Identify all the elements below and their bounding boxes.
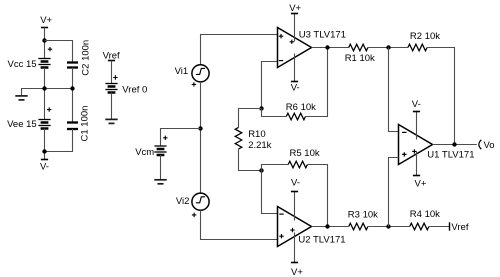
- svg-text:V+: V+: [415, 178, 427, 189]
- junction R3-R4 node: [386, 224, 390, 228]
- junction bottom-left: [42, 149, 46, 153]
- svg-text:C2 100n: C2 100n: [81, 40, 92, 76]
- wire Vcm branch: [161, 129, 201, 147]
- svg-text:V+: V+: [40, 15, 52, 26]
- svg-text:V+: V+: [289, 3, 301, 14]
- wire U2 V- supply: [294, 192, 296, 221]
- svg-text:Vi1: Vi1: [175, 66, 189, 77]
- battery Vref 0: [105, 75, 147, 95]
- wire Vref battery to ground: [111, 93, 113, 120]
- junction U1 output node: [452, 142, 456, 146]
- svg-text:2.21k: 2.21k: [248, 140, 271, 151]
- node V- terminal below U3: [291, 82, 300, 94]
- wire U2 V+ supply: [294, 233, 296, 263]
- op-amp U2 TLV171: [278, 207, 346, 247]
- svg-text:R6 10k: R6 10k: [286, 102, 316, 113]
- wire U3 output row: [312, 47, 349, 49]
- wire U2 minus input net: [262, 171, 278, 214]
- svg-text:R5 10k: R5 10k: [290, 148, 320, 159]
- svg-text:V+: V+: [291, 267, 303, 277]
- svg-text:V-: V-: [40, 162, 49, 173]
- node V+ terminal below U1: [413, 176, 427, 190]
- junction U3 output node: [325, 45, 329, 49]
- wire R4 right to Vref terminal: [429, 226, 450, 228]
- resistor R5 10k: [288, 148, 320, 168]
- svg-text:R4 10k: R4 10k: [410, 209, 440, 220]
- node Vref terminal: [103, 51, 120, 62]
- source Vi1: [175, 65, 209, 87]
- svg-text:Vref: Vref: [103, 51, 120, 62]
- svg-text:Vcm: Vcm: [135, 147, 154, 158]
- wire R10 top lead: [239, 109, 262, 128]
- junction V+ rail to C2 branch: [42, 38, 46, 42]
- svg-text:U2 TLV171: U2 TLV171: [298, 234, 345, 245]
- wire Vcm battery to ground: [160, 155, 162, 179]
- wire Vi1 bottom to Vi2 top: [200, 82, 202, 193]
- capacitor C1 100n: [67, 106, 91, 142]
- wire R3-R4 node up to U1 plus input: [389, 158, 399, 227]
- svg-text:R3 10k: R3 10k: [348, 209, 378, 220]
- wire U1 output row: [433, 144, 477, 146]
- junction U2 output node: [325, 224, 329, 228]
- junction R10 top: [259, 106, 263, 110]
- wire R5 left lead: [262, 165, 289, 171]
- wire V+ terminal to Vcc battery: [44, 28, 46, 59]
- node V+ terminal top-left: [40, 15, 52, 27]
- svg-text:Vcc 15: Vcc 15: [8, 59, 37, 70]
- wire mid ground rail: [22, 89, 73, 96]
- node V+ terminal above U3: [289, 3, 301, 14]
- svg-text:Vo: Vo: [484, 140, 495, 151]
- wire R6 right lead up to U3 output: [306, 48, 328, 117]
- wire Vee bottom to V- terminal: [44, 129, 46, 160]
- node Vo output pin: [479, 140, 495, 151]
- op-amp U3 TLV171: [278, 28, 346, 68]
- wire Vref terminal to battery: [111, 61, 113, 84]
- ground left: [15, 96, 27, 100]
- node V- terminal bottom-left: [40, 160, 49, 173]
- battery Vcc 15: [8, 47, 53, 70]
- junction R1-R2 node: [386, 45, 390, 49]
- resistor R1 10k: [345, 44, 375, 64]
- junction mid rail at battery column: [42, 86, 46, 90]
- wire Vcc to Vee through mid rail: [44, 68, 46, 120]
- battery Vcm: [135, 136, 167, 159]
- wire R2 right down to U1 output node: [427, 48, 454, 145]
- resistor R10 2.21k: [235, 127, 271, 151]
- source Vi2: [176, 193, 209, 217]
- ground under Vref: [105, 119, 117, 123]
- svg-text:V-: V-: [412, 99, 421, 110]
- svg-text:V-: V-: [291, 177, 300, 188]
- svg-text:Vref 0: Vref 0: [122, 85, 147, 96]
- ground under Vcm: [154, 180, 166, 184]
- wire U3 minus input net: [262, 62, 278, 109]
- svg-text:R2 10k: R2 10k: [410, 31, 440, 42]
- battery Vee 15: [7, 107, 51, 130]
- wire R10 bottom lead: [239, 149, 262, 171]
- wire R1 to R2: [368, 47, 408, 49]
- wire U2 output row: [312, 226, 349, 228]
- junction R10 bottom: [259, 168, 263, 172]
- wire C1 bottom elbow to rail: [45, 129, 73, 152]
- wire R1-R2 node down to U1 minus input: [389, 48, 399, 132]
- svg-text:R10: R10: [248, 129, 265, 140]
- node V+ terminal below U2: [291, 263, 303, 277]
- resistor R3 10k: [348, 209, 378, 229]
- node V- terminal above U2: [291, 177, 300, 191]
- svg-text:U1 TLV171: U1 TLV171: [427, 150, 474, 161]
- svg-text:Vref: Vref: [451, 222, 468, 233]
- wire C2 bottom to C1 top: [72, 68, 74, 123]
- junction mid rail at capacitor column: [70, 86, 74, 90]
- wire U1 V- supply: [416, 112, 418, 140]
- wire Vi2 bottom to U2 plus input: [201, 210, 278, 239]
- wire R6 left lead: [262, 109, 287, 117]
- junction Vcm tap: [198, 126, 202, 130]
- resistor R2 10k: [408, 31, 440, 51]
- wire U3 V- supply: [294, 54, 296, 82]
- wire U1 V+ supply: [416, 152, 418, 176]
- resistor R4 10k: [410, 209, 440, 230]
- wire R5 right lead down to U2 output: [307, 165, 327, 227]
- wire R3 to R4: [368, 226, 410, 228]
- svg-text:R1 10k: R1 10k: [345, 53, 375, 64]
- svg-text:C1 100n: C1 100n: [80, 106, 91, 142]
- node Vref terminal right: [450, 222, 469, 233]
- capacitor C2 100n: [67, 40, 92, 76]
- svg-text:Vee 15: Vee 15: [7, 119, 37, 130]
- wire U3 V+ supply: [294, 14, 296, 42]
- node V- terminal above U1: [412, 99, 421, 111]
- wire top branch over to C2: [45, 41, 73, 63]
- svg-text:Vi2: Vi2: [176, 196, 190, 207]
- resistor R6 10k: [286, 102, 316, 120]
- op-amp U1 TLV171: [399, 125, 475, 165]
- svg-text:V-: V-: [291, 82, 300, 93]
- svg-text:U3 TLV171: U3 TLV171: [299, 30, 346, 41]
- wire Vi1 top to U3 plus input: [201, 35, 278, 65]
